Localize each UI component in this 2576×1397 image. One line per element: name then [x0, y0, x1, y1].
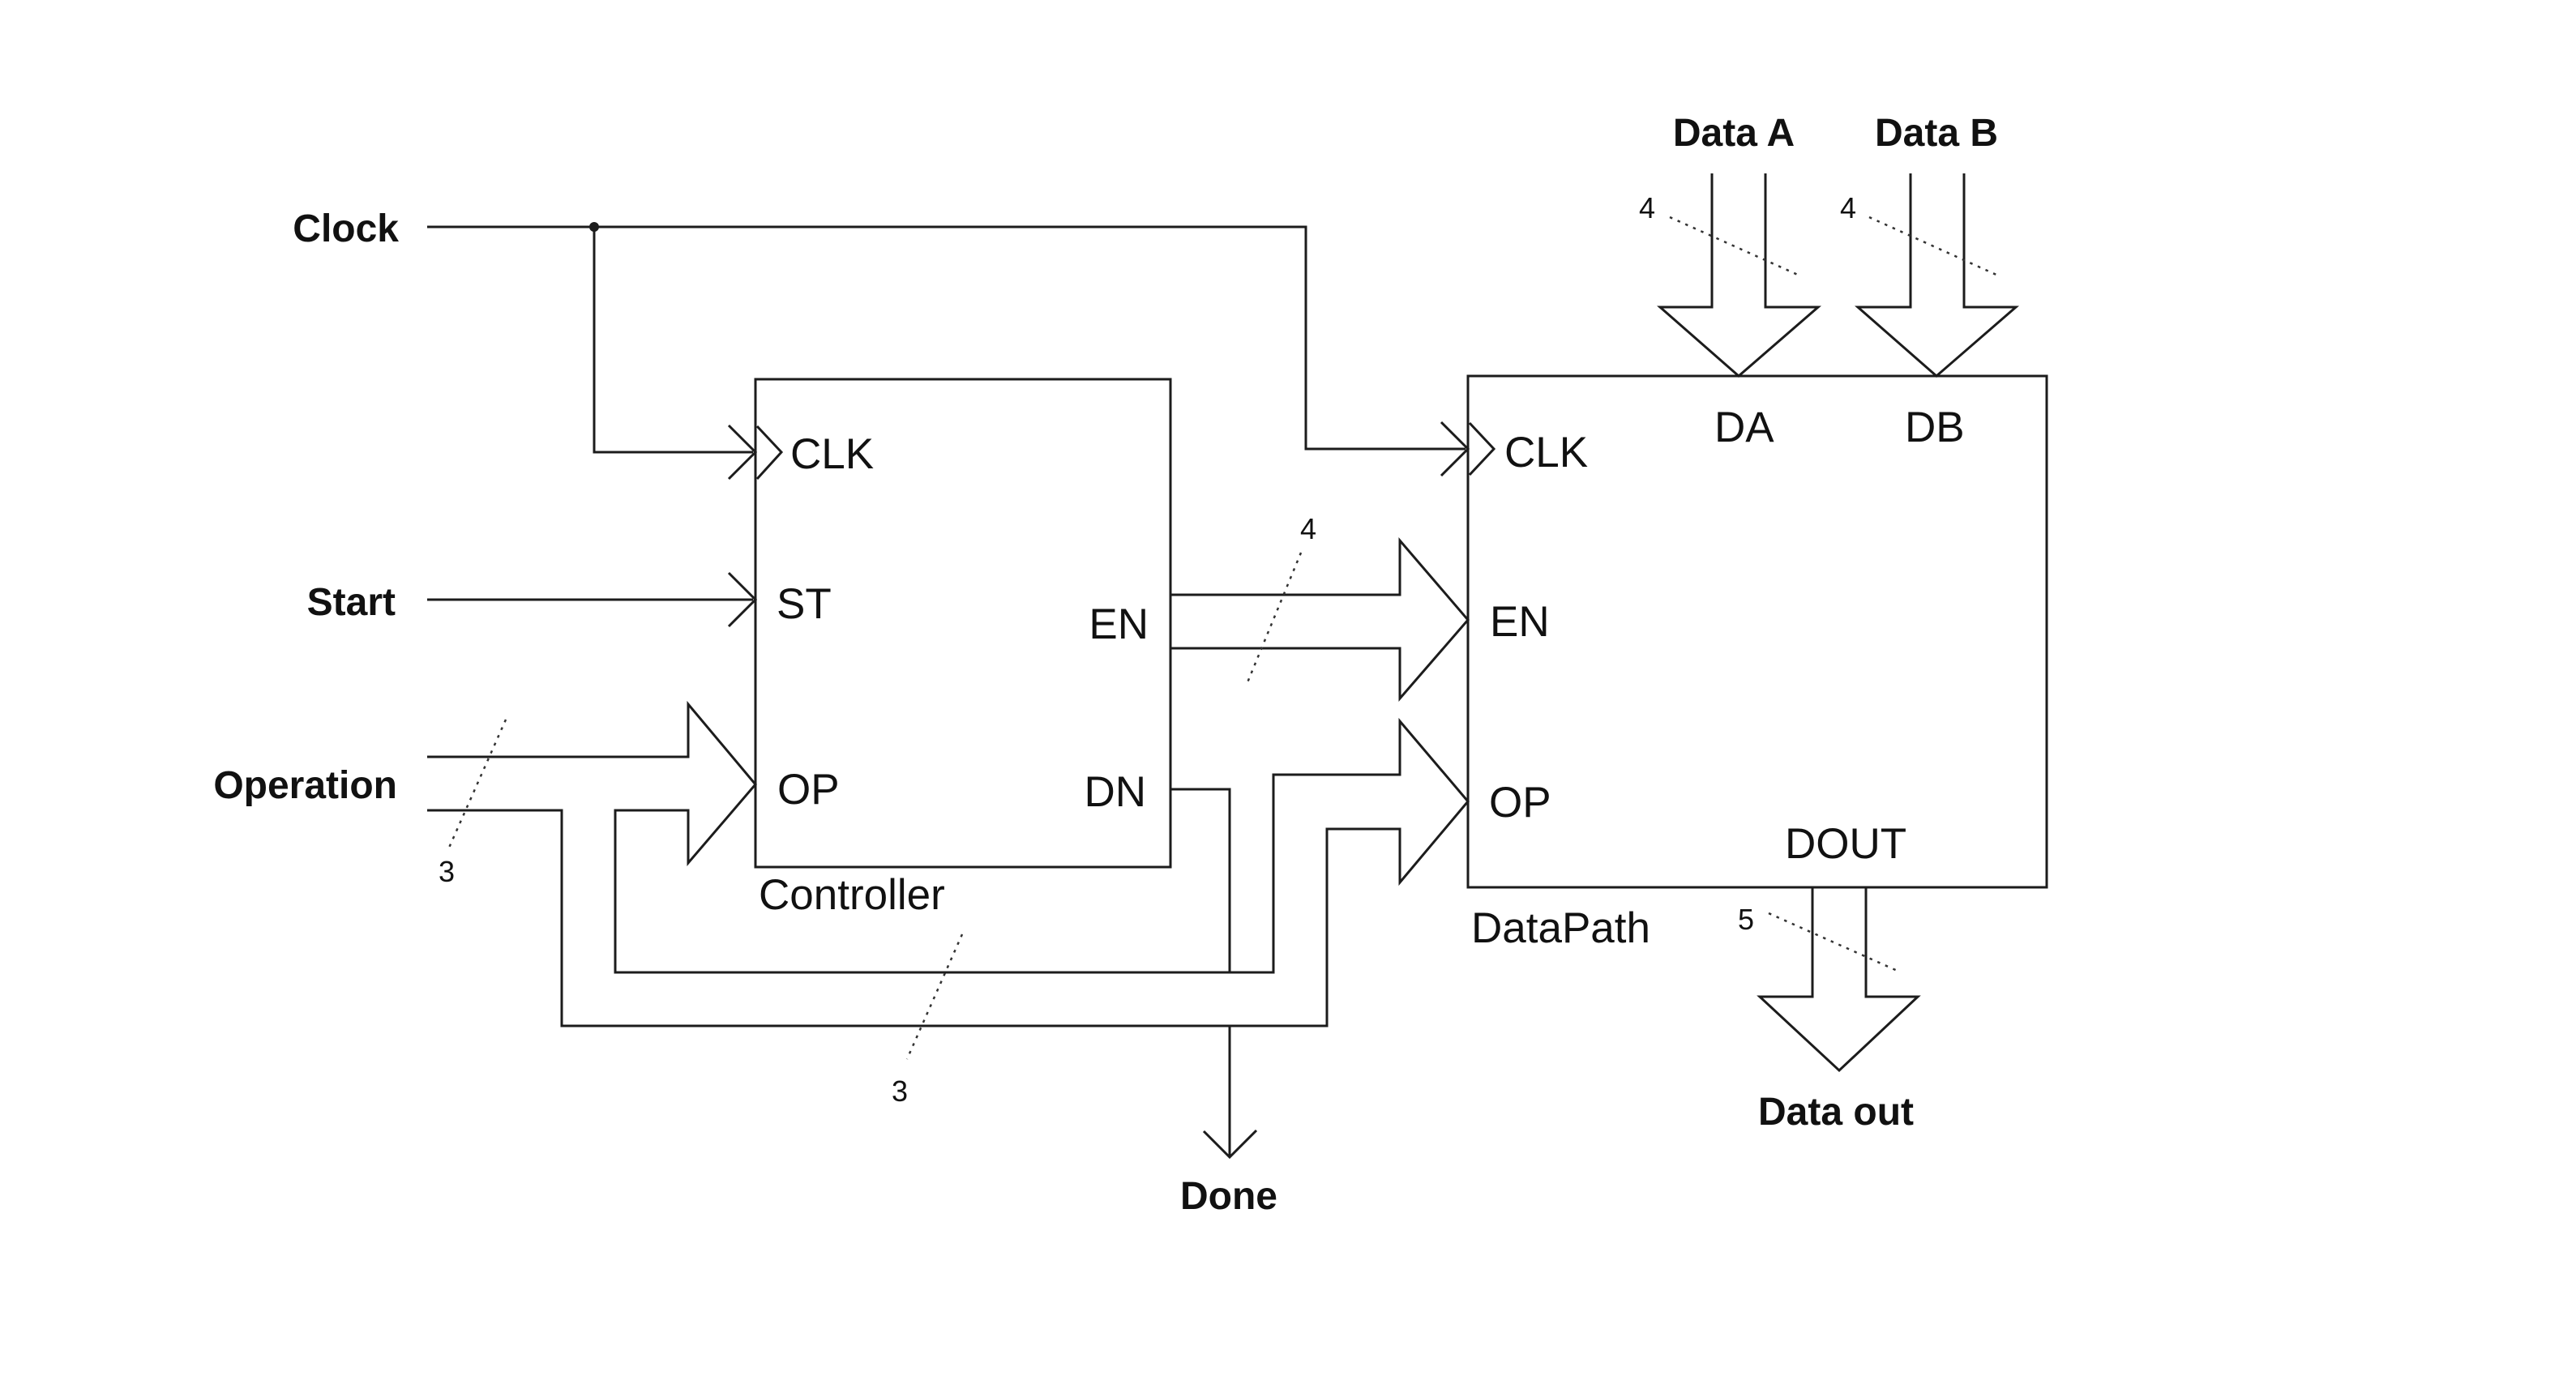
- svg-text:DOUT: DOUT: [1785, 820, 1906, 868]
- svg-text:Data A: Data A: [1673, 112, 1795, 155]
- svg-text:DataPath: DataPath: [1471, 904, 1650, 952]
- svg-text:Clock: Clock: [293, 207, 399, 250]
- svg-text:EN: EN: [1490, 598, 1550, 646]
- svg-text:DN: DN: [1084, 768, 1146, 816]
- svg-text:4: 4: [1300, 512, 1316, 545]
- svg-text:5: 5: [1738, 903, 1754, 936]
- svg-text:Data out: Data out: [1758, 1091, 1914, 1134]
- svg-text:DB: DB: [1905, 404, 1965, 451]
- svg-text:ST: ST: [777, 580, 832, 628]
- svg-text:Start: Start: [307, 581, 396, 624]
- svg-text:Controller: Controller: [759, 871, 945, 919]
- svg-text:CLK: CLK: [1504, 429, 1588, 476]
- svg-text:3: 3: [439, 855, 455, 888]
- svg-text:OP: OP: [1489, 779, 1551, 827]
- svg-text:3: 3: [892, 1074, 908, 1108]
- svg-text:EN: EN: [1089, 600, 1149, 648]
- svg-text:Done: Done: [1180, 1175, 1277, 1218]
- svg-text:DA: DA: [1714, 404, 1774, 451]
- svg-text:CLK: CLK: [790, 430, 874, 478]
- svg-text:Operation: Operation: [213, 764, 397, 807]
- svg-text:4: 4: [1840, 191, 1856, 224]
- svg-text:4: 4: [1639, 191, 1655, 224]
- svg-text:OP: OP: [777, 766, 840, 814]
- svg-text:Data B: Data B: [1875, 112, 1998, 155]
